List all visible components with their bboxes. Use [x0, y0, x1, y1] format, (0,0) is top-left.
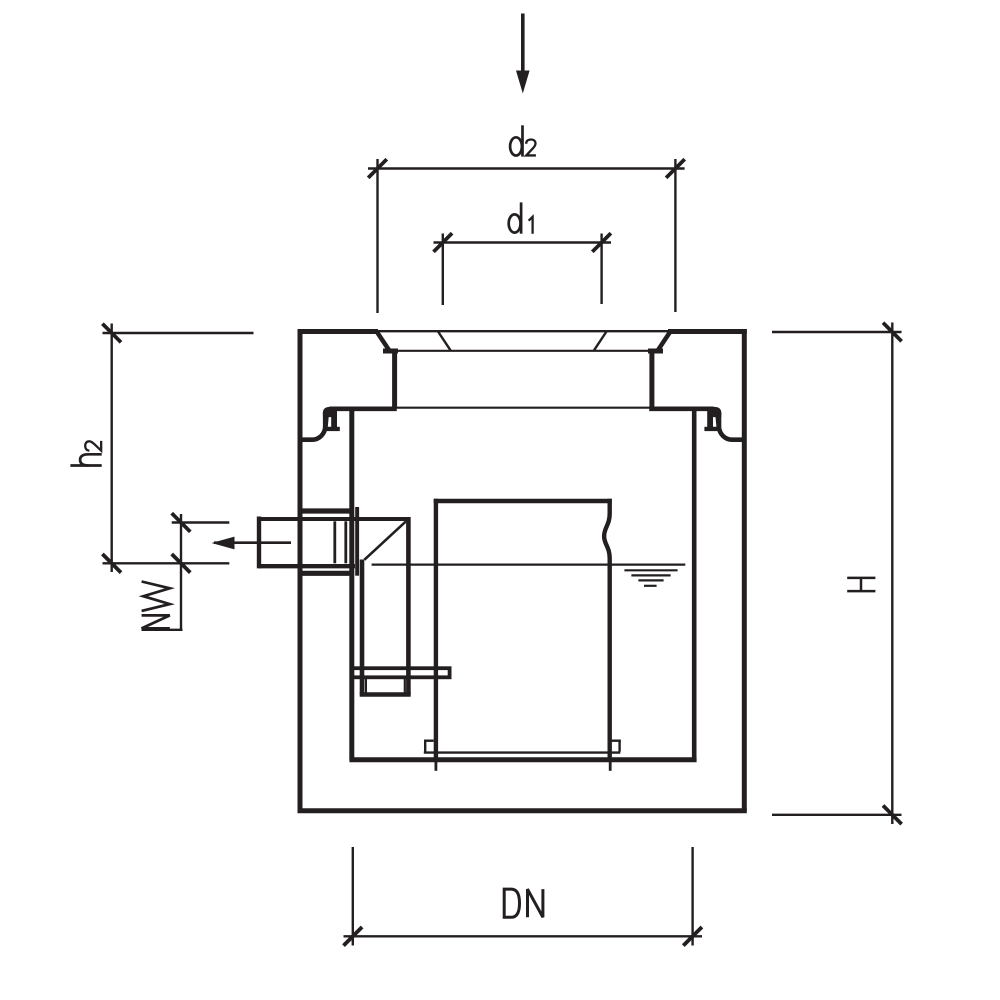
tank outer bottom [298, 808, 747, 813]
frame recess left diagonal [377, 333, 390, 352]
inlet direction arrow (top) [516, 14, 530, 94]
outlet pipe bottom [259, 564, 355, 568]
water line [372, 563, 686, 565]
outlet pipe sleeve top [300, 508, 354, 513]
frame seat line [390, 350, 652, 352]
label d2 [510, 125, 536, 156]
water level symbol [624, 570, 677, 586]
outlet pipe end cap [257, 517, 261, 569]
outlet pipe sleeve bottom [300, 571, 354, 576]
vessel bracket left [424, 740, 434, 751]
dimension h2 [102, 324, 253, 573]
inner floor [349, 757, 696, 762]
tank outer right wall [742, 329, 747, 811]
vessel left anchor stub [434, 758, 437, 771]
dimension NW [142, 513, 230, 630]
joint seal profile left [300, 407, 340, 440]
frame seat lip left [383, 349, 398, 354]
frame seat lip right [648, 349, 663, 354]
vessel bracket right [611, 740, 621, 751]
neck wall right [649, 351, 654, 409]
elbow right wall / downpipe right wall [406, 517, 411, 695]
vessel base plate [424, 751, 621, 753]
frame recess right diagonal [657, 333, 670, 352]
label h2 [70, 441, 101, 466]
vessel right wall with break bow [604, 499, 610, 758]
label H [847, 578, 875, 591]
dimension d2 [368, 159, 685, 313]
slab underside left thick [330, 406, 397, 411]
outlet flow arrow (left) [212, 537, 292, 550]
joint seal profile right [704, 407, 744, 440]
tank top edge right thick [668, 329, 747, 334]
slab underside right thick [649, 406, 713, 411]
outlet pipe top [259, 517, 410, 521]
vessel left wall [434, 499, 438, 758]
pipe socket line 2 [344, 521, 347, 563]
dimension H [772, 323, 902, 825]
tank top edge thin middle [377, 330, 669, 332]
cover lid right edge [594, 332, 607, 351]
downpipe bell inner right [404, 677, 406, 693]
neck wall left [392, 351, 397, 409]
vessel right anchor stub [609, 758, 612, 771]
dimension DN [344, 847, 703, 946]
vessel top [434, 499, 612, 503]
tank outer left wall [298, 329, 303, 811]
support rail [352, 668, 449, 677]
downpipe bottom cap [360, 692, 411, 697]
elbow diagonal [364, 521, 406, 560]
cover lid left edge [438, 332, 451, 351]
downpipe left wall [360, 560, 365, 695]
pipe socket line 1 [333, 521, 336, 563]
inner wall right [692, 409, 697, 760]
label d1 [509, 202, 533, 233]
label DN [504, 889, 543, 917]
downpipe bell inner left [365, 677, 367, 693]
dimension d1 [434, 233, 612, 305]
label NW [142, 582, 170, 629]
slab underside thin line across opening [396, 407, 650, 409]
elbow flange plate [355, 507, 359, 576]
tank top edge left thick [298, 329, 379, 334]
inner wall left [349, 409, 354, 760]
